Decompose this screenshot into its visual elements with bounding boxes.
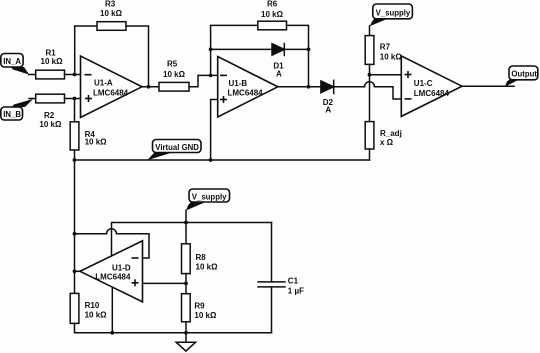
svg-text:10 kΩ: 10 kΩ (85, 138, 108, 147)
node U1-A inverting (73, 73, 77, 77)
wire R6 right down to U1-B output (287, 25, 309, 86)
capacitor C1 top lead (271, 223, 273, 282)
svg-text:R6: R6 (267, 0, 278, 8)
resistor R8 (182, 244, 191, 274)
ground symbol (176, 342, 196, 351)
svg-text:LMC6484: LMC6484 (228, 89, 264, 98)
wire V_supply flag to R8 (185, 210, 187, 244)
svg-text:R5: R5 (167, 59, 178, 68)
flag V_supply bottom (186, 189, 230, 211)
wire top rail of bottom section (112, 223, 272, 256)
op-amp U1-A (81, 56, 143, 118)
wire R3 feedback vertical from inverting node (75, 26, 97, 75)
svg-text:U1-A: U1-A (94, 79, 113, 88)
wire R2 to U1-A non-inverting input (65, 98, 81, 100)
wire U1-D V- pin to rail (111, 288, 113, 333)
U1-D minus (132, 257, 139, 259)
flag IN_A (1, 54, 29, 75)
wire R7 column down through hump to R_adj (369, 75, 371, 122)
svg-text:10 kΩ: 10 kΩ (380, 52, 403, 61)
svg-text:10 kΩ: 10 kΩ (85, 310, 108, 319)
svg-text:10 kΩ: 10 kΩ (261, 10, 284, 19)
resistor R3 (97, 22, 126, 31)
svg-text:R_adj: R_adj (380, 129, 402, 138)
resistor R_adj (365, 122, 374, 149)
resistor R5 (159, 82, 189, 91)
wire R3 right down to U1-A output (126, 26, 149, 87)
capacitor C1 (258, 281, 285, 283)
op-amp U1-B (218, 57, 278, 118)
svg-text:10 kΩ: 10 kΩ (163, 70, 186, 79)
resistor R9 (182, 294, 191, 322)
node rail left (73, 158, 77, 162)
diode D2 (321, 81, 334, 93)
wire U1-B non-inverting column to rail (211, 100, 218, 161)
svg-text:R7: R7 (380, 43, 391, 52)
wire U1-D feedback with hump over V+ pin (75, 233, 107, 235)
svg-text:R8: R8 (196, 253, 207, 262)
svg-text:Output: Output (511, 70, 537, 79)
wire R6 feedback vertical column (211, 25, 258, 75)
U1-A plus (85, 98, 92, 100)
U1-A minus (85, 74, 92, 76)
svg-text:U1-D: U1-D (112, 263, 131, 272)
node U1-A non-inverting (73, 97, 77, 101)
resistor R4 (70, 122, 79, 150)
wire left column rail to U1-D and R10 (74, 160, 76, 293)
wire U1-D plus input to divider (143, 282, 187, 284)
wire R4 vertical from non-inverting node (74, 99, 76, 122)
resistor R10 (70, 293, 79, 323)
svg-text:10 kΩ: 10 kΩ (41, 57, 64, 66)
op-amp input polarity symbols (85, 71, 412, 286)
svg-text:C1: C1 (288, 276, 299, 285)
node U1-B output (307, 85, 311, 89)
wire D1 cathode to right column (284, 48, 308, 50)
svg-text:V_supply: V_supply (192, 192, 227, 201)
wire R10 bottom corner (75, 323, 186, 332)
wire R1 to U1-A inverting input (65, 74, 81, 76)
U1-B minus (220, 74, 227, 76)
wire U1-D output stub (75, 270, 81, 272)
ground stub (185, 333, 187, 342)
node D1 left (209, 48, 213, 52)
U1-C plus (405, 74, 412, 76)
node V- pin rail (110, 331, 114, 335)
U1-D plus (132, 282, 139, 284)
svg-text:IN_B: IN_B (3, 110, 21, 119)
svg-text:LMC6484: LMC6484 (414, 89, 450, 98)
wire R5 to U1-B inverting input (189, 75, 218, 86)
svg-text:LMC6484: LMC6484 (95, 272, 131, 281)
op-amp U1-C (401, 56, 462, 117)
node R8 R9 divider (184, 282, 188, 286)
svg-text:A: A (325, 105, 331, 114)
flag IN_B (1, 99, 33, 120)
wire U1-B output to D2 (278, 86, 321, 88)
svg-text:R3: R3 (105, 0, 116, 8)
node D1 right (307, 48, 311, 52)
wire R8 bottom to junction (185, 274, 187, 294)
svg-text:R1: R1 (46, 48, 57, 57)
capacitor C1 bottom lead (271, 287, 273, 333)
resistor R1 (36, 70, 65, 79)
node rail U1-B plus (209, 158, 213, 162)
node U1-C plus (368, 73, 372, 77)
node U1-D output (73, 269, 77, 273)
svg-text:U1-B: U1-B (229, 79, 248, 88)
flag V_supply top (370, 4, 413, 26)
wire R7 bottom to U1-C plus input (369, 64, 371, 74)
svg-text:1 µF: 1 µF (288, 287, 304, 296)
node R9 bottom rail (184, 331, 188, 335)
resistor R2 (36, 94, 65, 103)
wire V_supply to R7 (369, 26, 371, 36)
svg-text:R2: R2 (44, 111, 55, 120)
svg-text:U1-C: U1-C (414, 79, 433, 88)
U1-C minus (405, 98, 412, 100)
svg-text:10 kΩ: 10 kΩ (194, 311, 217, 320)
svg-text:IN_A: IN_A (3, 57, 21, 66)
wire U1-C output (462, 85, 514, 87)
svg-text:R10: R10 (85, 301, 100, 310)
svg-text:R9: R9 (194, 302, 205, 311)
svg-text:x Ω: x Ω (380, 138, 394, 147)
wire D2 to U1-C with hump over R7 column (334, 86, 365, 88)
wire R9 bottom to rail (185, 322, 187, 333)
op-amp U1-D mirrored (80, 241, 143, 302)
wire virtual ground rail (75, 159, 370, 161)
diode D1 (272, 44, 284, 56)
wire D1 row (211, 48, 272, 50)
wire R_adj bottom to virtual ground rail (369, 149, 371, 160)
wire R4 bottom to virtual ground rail (74, 150, 76, 160)
svg-text:10 kΩ: 10 kΩ (196, 263, 219, 272)
svg-text:V_supply: V_supply (376, 9, 411, 18)
svg-text:Virtual GND: Virtual GND (155, 143, 199, 152)
node U1-D feedback tap (73, 232, 77, 236)
node V_supply R8 (184, 221, 188, 225)
svg-text:10 kΩ: 10 kΩ (39, 120, 62, 129)
wire R1 lead left (29, 74, 36, 76)
resistor R6 (258, 21, 287, 30)
flag Virtual GND (147, 140, 201, 161)
flag Output (505, 66, 538, 87)
wire bottom rail right segment (186, 332, 272, 334)
svg-text:10 kΩ: 10 kΩ (100, 9, 123, 18)
wire U1-A output to R5 (142, 86, 159, 88)
U1-B plus (220, 99, 227, 101)
svg-text:LMC6484: LMC6484 (93, 88, 129, 97)
wire R2 lead left (29, 98, 36, 100)
resistor R7 (365, 36, 374, 65)
node U1-A output (147, 85, 151, 89)
svg-text:A: A (276, 70, 282, 79)
node U1-B inverting (209, 74, 213, 78)
